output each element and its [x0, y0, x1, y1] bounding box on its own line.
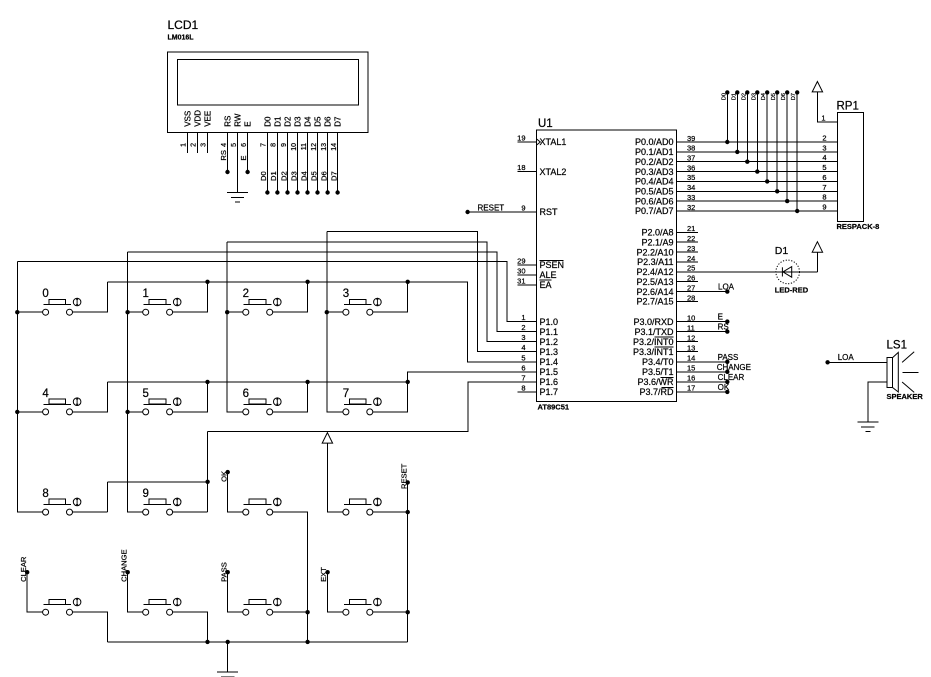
svg-text:2: 2 [191, 143, 198, 147]
svg-text:7: 7 [822, 183, 826, 192]
svg-text:P2.4/A12: P2.4/A12 [636, 267, 673, 277]
svg-text:9: 9 [281, 143, 288, 147]
svg-text:P3.0/RXD: P3.0/RXD [633, 317, 674, 327]
svg-text:P0.5/AD5: P0.5/AD5 [635, 187, 674, 197]
svg-text:P1.0: P1.0 [540, 317, 559, 327]
svg-text:3: 3 [201, 143, 208, 147]
svg-text:5: 5 [143, 388, 149, 400]
svg-text:8: 8 [521, 383, 525, 392]
svg-text:LCD1: LCD1 [168, 18, 199, 32]
svg-text:P2.2/A10: P2.2/A10 [636, 247, 673, 257]
svg-text:16: 16 [687, 374, 695, 383]
svg-text:P0.6/AD6: P0.6/AD6 [635, 196, 674, 206]
svg-text:P3.3/INT1: P3.3/INT1 [633, 347, 674, 357]
svg-text:D7: D7 [329, 171, 338, 181]
svg-text:RESET: RESET [399, 463, 408, 489]
svg-text:5: 5 [231, 143, 238, 147]
svg-text:5: 5 [521, 353, 525, 362]
svg-text:10: 10 [291, 143, 298, 151]
svg-text:RST: RST [540, 207, 559, 217]
svg-text:CLEAR: CLEAR [718, 373, 745, 382]
svg-text:P2.5/A13: P2.5/A13 [636, 277, 673, 287]
svg-text:9: 9 [822, 203, 826, 212]
svg-text:PASS: PASS [219, 562, 228, 582]
svg-text:PSEN: PSEN [540, 260, 565, 270]
svg-text:E: E [244, 121, 253, 126]
svg-text:14: 14 [687, 354, 695, 363]
svg-text:D1: D1 [731, 93, 737, 100]
svg-text:P2.1/A9: P2.1/A9 [641, 237, 673, 247]
svg-text:11: 11 [687, 323, 695, 332]
svg-text:P0.3/AD3: P0.3/AD3 [635, 167, 674, 177]
svg-text:4: 4 [521, 343, 525, 352]
svg-text:P2.0/A8: P2.0/A8 [641, 228, 673, 238]
svg-text:XTAL2: XTAL2 [540, 167, 567, 177]
svg-text:5: 5 [822, 163, 826, 172]
svg-text:P3.4/T0: P3.4/T0 [642, 357, 674, 367]
svg-text:7: 7 [261, 143, 268, 147]
svg-text:AT89C51: AT89C51 [538, 403, 570, 412]
svg-text:D4: D4 [761, 93, 767, 100]
svg-text:E: E [718, 313, 723, 322]
svg-text:1: 1 [821, 113, 825, 122]
svg-text:LM016L: LM016L [168, 34, 195, 41]
svg-text:18: 18 [517, 163, 525, 172]
svg-text:10: 10 [687, 313, 695, 322]
svg-text:12: 12 [311, 143, 318, 151]
svg-text:D6: D6 [781, 93, 787, 100]
svg-text:RS: RS [223, 116, 232, 127]
svg-text:D2: D2 [279, 171, 288, 181]
svg-text:D1: D1 [269, 171, 278, 181]
svg-text:XTAL1: XTAL1 [540, 137, 567, 147]
svg-text:34: 34 [687, 183, 695, 192]
svg-text:D0: D0 [721, 93, 727, 100]
svg-text:D1: D1 [273, 116, 282, 127]
svg-text:RS: RS [718, 323, 729, 332]
svg-text:32: 32 [687, 203, 695, 212]
svg-text:13: 13 [321, 143, 328, 151]
svg-text:11: 11 [301, 143, 308, 150]
svg-text:3: 3 [822, 143, 826, 152]
svg-text:7: 7 [521, 373, 525, 382]
svg-text:EA: EA [540, 280, 552, 290]
svg-text:8: 8 [42, 488, 48, 500]
svg-text:P0.1/AD1: P0.1/AD1 [635, 147, 674, 157]
svg-text:9: 9 [143, 488, 149, 500]
svg-text:38: 38 [687, 144, 695, 153]
svg-text:14: 14 [331, 143, 338, 151]
svg-text:33: 33 [687, 193, 695, 202]
svg-text:D3: D3 [293, 116, 302, 127]
svg-text:P3.2/INT0: P3.2/INT0 [633, 337, 674, 347]
svg-text:VEE: VEE [203, 111, 212, 127]
svg-text:P1.3: P1.3 [540, 347, 559, 357]
svg-text:CHANGE: CHANGE [119, 549, 128, 582]
svg-text:26: 26 [687, 274, 695, 283]
svg-text:37: 37 [687, 154, 695, 163]
svg-text:P2.3/A11: P2.3/A11 [637, 257, 673, 267]
svg-text:D4: D4 [303, 116, 312, 127]
svg-text:D0: D0 [259, 171, 268, 181]
svg-text:P3.5/T1: P3.5/T1 [642, 367, 674, 377]
svg-text:P0.7/AD7: P0.7/AD7 [635, 206, 674, 216]
svg-text:30: 30 [517, 266, 525, 275]
svg-text:EXT: EXT [319, 567, 328, 582]
svg-text:D1: D1 [775, 245, 789, 257]
svg-text:D0: D0 [263, 116, 272, 127]
svg-text:VDD: VDD [193, 110, 202, 127]
svg-text:RESPACK-8: RESPACK-8 [837, 222, 880, 231]
svg-text:0: 0 [42, 288, 48, 300]
svg-text:17: 17 [687, 384, 695, 393]
svg-text:1: 1 [521, 313, 525, 322]
svg-text:19: 19 [517, 134, 525, 143]
svg-text:7: 7 [343, 388, 349, 400]
svg-text:24: 24 [687, 254, 695, 263]
svg-text:D7: D7 [791, 93, 797, 100]
svg-text:LED-RED: LED-RED [775, 286, 809, 295]
svg-text:1: 1 [181, 143, 188, 147]
svg-text:29: 29 [517, 257, 525, 266]
svg-text:35: 35 [687, 173, 695, 182]
svg-text:VSS: VSS [183, 111, 192, 127]
svg-text:LS1: LS1 [887, 340, 907, 352]
svg-text:P1.7: P1.7 [540, 387, 559, 397]
svg-text:28: 28 [687, 293, 695, 302]
svg-text:P1.4: P1.4 [540, 357, 559, 367]
svg-text:8: 8 [271, 143, 278, 147]
svg-text:RW: RW [233, 113, 242, 127]
svg-text:27: 27 [687, 283, 695, 292]
svg-text:2: 2 [243, 288, 249, 300]
svg-text:3: 3 [521, 333, 525, 342]
svg-text:4: 4 [221, 143, 228, 147]
svg-text:4: 4 [822, 153, 826, 162]
svg-text:P0.0/AD0: P0.0/AD0 [635, 137, 674, 147]
svg-text:6: 6 [241, 143, 248, 147]
svg-text:2: 2 [822, 134, 826, 143]
svg-text:U1: U1 [538, 118, 553, 130]
svg-text:13: 13 [687, 344, 695, 353]
svg-text:23: 23 [687, 244, 695, 253]
svg-text:9: 9 [521, 204, 525, 213]
svg-text:E: E [239, 156, 248, 161]
svg-text:15: 15 [687, 364, 695, 373]
svg-text:CHANGE: CHANGE [717, 363, 751, 372]
svg-text:6: 6 [243, 388, 249, 400]
svg-text:D3: D3 [751, 93, 757, 100]
svg-text:P1.6: P1.6 [540, 377, 559, 387]
svg-text:LOA: LOA [718, 282, 735, 291]
svg-text:P3.1/TXD: P3.1/TXD [634, 327, 674, 337]
svg-text:RS: RS [219, 150, 228, 161]
svg-text:P2.6/A14: P2.6/A14 [636, 287, 673, 297]
svg-text:P0.2/AD2: P0.2/AD2 [635, 157, 674, 167]
svg-text:CLEAR: CLEAR [19, 556, 28, 582]
svg-text:31: 31 [517, 276, 525, 285]
svg-text:P3.7/RD: P3.7/RD [639, 387, 674, 397]
svg-text:P1.1: P1.1 [540, 327, 559, 337]
svg-text:P0.4/AD4: P0.4/AD4 [635, 177, 674, 187]
svg-text:25: 25 [687, 264, 695, 273]
svg-text:D2: D2 [283, 116, 292, 127]
svg-text:22: 22 [687, 234, 695, 243]
svg-text:P1.2: P1.2 [540, 337, 559, 347]
svg-text:RP1: RP1 [837, 100, 859, 112]
svg-text:1: 1 [143, 288, 149, 300]
svg-text:21: 21 [687, 224, 695, 233]
svg-text:4: 4 [42, 388, 49, 400]
svg-text:12: 12 [687, 334, 695, 343]
svg-text:SPEAKER: SPEAKER [887, 392, 924, 401]
svg-text:D7: D7 [334, 116, 343, 127]
svg-text:D5: D5 [771, 93, 777, 100]
svg-text:2: 2 [521, 323, 525, 332]
svg-text:D3: D3 [289, 171, 298, 181]
svg-text:OK: OK [219, 471, 228, 482]
svg-text:8: 8 [822, 193, 826, 202]
svg-text:D5: D5 [313, 116, 322, 127]
svg-text:P1.5: P1.5 [540, 367, 559, 377]
svg-text:39: 39 [687, 134, 695, 143]
svg-text:D6: D6 [324, 116, 333, 127]
svg-text:ALE: ALE [540, 270, 557, 280]
svg-text:PASS: PASS [718, 353, 739, 362]
svg-text:OK: OK [718, 383, 730, 392]
svg-text:P2.7/A15: P2.7/A15 [636, 297, 673, 307]
svg-text:D2: D2 [741, 93, 747, 100]
svg-text:36: 36 [687, 163, 695, 172]
svg-text:D6: D6 [319, 171, 328, 181]
svg-text:D5: D5 [309, 171, 318, 181]
svg-text:D4: D4 [299, 171, 308, 181]
svg-text:6: 6 [822, 173, 826, 182]
svg-text:RESET: RESET [478, 203, 505, 212]
svg-text:3: 3 [343, 288, 349, 300]
svg-text:P3.6/WR: P3.6/WR [637, 377, 674, 387]
svg-text:LOA: LOA [838, 353, 855, 362]
svg-text:6: 6 [521, 363, 525, 372]
